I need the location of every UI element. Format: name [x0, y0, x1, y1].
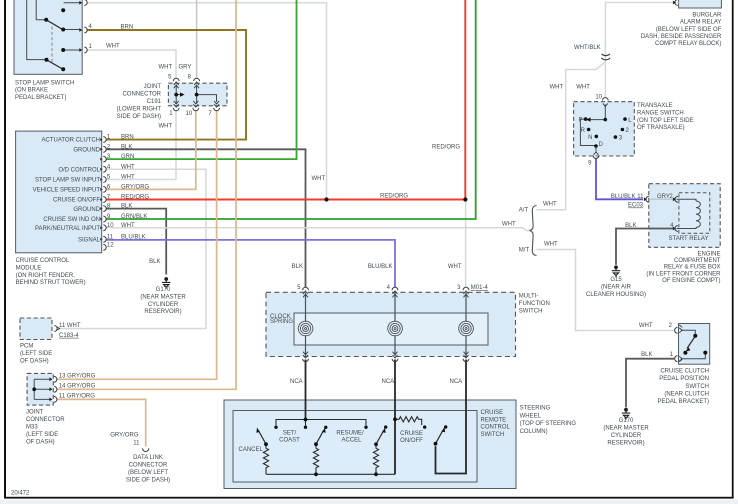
wire NCA BLK clock spring pin 3 to right switch [436, 360, 467, 474]
wire GRY/ORG M33 pin 11 to data link connector [57, 399, 146, 446]
svg-text:START RELAY: START RELAY [669, 236, 709, 242]
svg-text:BLU/BLK: BLU/BLK [368, 264, 393, 270]
svg-text:GRY/ORG: GRY/ORG [110, 433, 139, 439]
wire GRN/BLK module pin 9 to top [106, 0, 476, 219]
C191 pin 7 bottom arc [214, 101, 220, 111]
wire BLK start relay pin 4 to ground G15 [616, 229, 674, 265]
set/coast blade arrowhead [322, 428, 326, 433]
clutch switch pin 2 arc [675, 325, 683, 333]
wire BLK clutch switch pin 1 to ground G170 [626, 359, 674, 408]
PCM pin 11 arc [54, 326, 59, 332]
svg-text:EC03: EC03 [628, 203, 644, 209]
stop lamp switch pin 4 arc [79, 27, 87, 33]
svg-text:BLU/BLK: BLU/BLK [611, 194, 636, 200]
wire NCA BLK clock spring pin 5 to switch rail [305, 360, 307, 420]
svg-text:RED/ORG: RED/ORG [432, 145, 460, 151]
svg-text:WHT: WHT [576, 84, 590, 90]
steering wheel box [224, 400, 516, 489]
wire BRN stop lamp pin 4 to module pin 1 [87, 30, 247, 140]
border frame right [732, 0, 734, 499]
svg-text:M01-4: M01-4 [471, 285, 489, 291]
clock spring spiral coil middle [388, 321, 403, 336]
stop lamp switch internal feed wires [27, 0, 47, 60]
set/coast switch blade [316, 431, 323, 444]
stop lamp switch pin top arc [79, 0, 87, 5]
cancel switch blade [259, 431, 266, 444]
wire GRY/ORG top feed to M33 pin 14 [57, 0, 237, 389]
clock spring pin 5 top arc [303, 287, 309, 297]
border frame bottom [4, 497, 734, 499]
clock spring spiral coil left [298, 321, 313, 336]
transaxle range switch box [574, 102, 635, 156]
wire WHT module pin 10 to brace [106, 228, 530, 231]
switch contact junction dots [264, 417, 447, 476]
svg-text:O/D CONTROL: O/D CONTROL [58, 168, 100, 174]
module pin 8 arc [100, 206, 106, 212]
svg-text:BRN: BRN [121, 135, 134, 141]
resume/accel blade arrowhead [382, 428, 386, 433]
footer gray strip [0, 500, 738, 504]
start relay pin 4 arc [673, 226, 678, 232]
module pin 6 arc [100, 187, 106, 193]
cruise control module box [16, 131, 102, 253]
A/T M/T brace [530, 206, 537, 256]
svg-text:WHT/BLK: WHT/BLK [574, 45, 601, 51]
svg-text:WHT: WHT [543, 202, 557, 208]
engine compartment relay and fuse box [649, 184, 720, 248]
start relay coil top lead [677, 199, 697, 201]
resume/accel resistor [373, 444, 378, 474]
svg-text:PARK/NEUTRAL INPUT: PARK/NEUTRAL INPUT [35, 226, 100, 232]
svg-text:N: N [588, 135, 592, 141]
svg-text:STOP LAMP SW INPUT: STOP LAMP SW INPUT [35, 178, 100, 184]
joint connector C191 box [168, 83, 227, 106]
svg-text:WHT: WHT [550, 84, 564, 90]
wire BLU/BLK transaxle pin 9 to start relay pin 11 [596, 159, 643, 200]
svg-text:GROUND: GROUND [73, 207, 100, 213]
stop lamp switch lower blade [47, 60, 63, 69]
stop lamp switch contact leads [63, 3, 79, 50]
start relay pin 2 arc [673, 196, 678, 202]
svg-text:M/T: M/T [519, 248, 530, 254]
svg-text:GRN: GRN [121, 154, 134, 160]
svg-text:WHT: WHT [121, 223, 135, 229]
svg-text:D: D [599, 142, 604, 148]
set/coast resistor [313, 444, 318, 474]
svg-text:CANCEL: CANCEL [239, 447, 264, 453]
svg-text:SIGNAL: SIGNAL [78, 238, 101, 244]
stop lamp switch upper blade [46, 20, 61, 29]
module pin 4 arc [100, 166, 106, 172]
C191 pin 8 top arc [194, 78, 200, 88]
M33 pin 13 arc [49, 376, 56, 382]
resume/accel switch blade [376, 431, 383, 444]
burglar alarm relay pin arc [673, 0, 678, 5]
start relay coil bottom lead [677, 227, 697, 228]
svg-text:WHT: WHT [312, 176, 326, 182]
cruise remote switch rail [276, 420, 366, 426]
cruise clutch pedal position switch box [679, 324, 710, 365]
svg-text:RED/ORG: RED/ORG [121, 195, 149, 201]
svg-text:NCA: NCA [290, 379, 303, 385]
clock spring inner box [294, 313, 488, 345]
cancel blade arrowhead [256, 428, 260, 433]
joint connector M33 box [27, 373, 53, 405]
module pin 2 arc [100, 146, 106, 152]
transaxle pin 9 arc [593, 152, 599, 159]
wire WHT M/T branch to clutch switch pin 2 [537, 250, 675, 331]
svg-text:WHT: WHT [106, 44, 120, 50]
svg-text:WHT: WHT [544, 242, 558, 248]
svg-text:P: P [578, 117, 582, 123]
module pin 5 arc [100, 177, 106, 183]
clutch switch blade [687, 337, 695, 349]
svg-text:GROUND: GROUND [73, 148, 100, 154]
wire BLU/BLK module pin 11 to clock spring pin 4 [106, 240, 395, 288]
svg-text:10: 10 [186, 111, 193, 117]
switch bottom rail [266, 473, 395, 475]
M33 junction node [32, 387, 36, 391]
clock spring spiral coil right [459, 321, 474, 336]
cruise on/off resistor branch [395, 417, 422, 425]
ground symbol G15 [612, 265, 620, 277]
start relay coil windings [696, 201, 700, 227]
junction dot red corner [463, 197, 467, 201]
M33 pin 11 arc [49, 397, 56, 403]
C191 pin 1 bottom arc [173, 101, 179, 111]
inline connector WHT/BLK arcs [601, 54, 610, 60]
cruise remote control switch box [233, 411, 477, 483]
start relay pin 11 arc [644, 196, 649, 202]
transaxle pin 10 arc [602, 98, 608, 107]
svg-text:WHT: WHT [448, 264, 462, 270]
stop lamp switch pin 1 arc [79, 47, 87, 53]
clock spring pin 4 top arc [392, 287, 398, 297]
wire WHT/BLK burglar alarm relay to transaxle pin 10 [605, 3, 678, 99]
svg-text:20/472: 20/472 [11, 491, 30, 497]
cancel resistor [263, 444, 268, 474]
module pin 9 arc [100, 216, 106, 222]
clock spring pin 5 bottom arc [303, 352, 309, 362]
wire GRY/ORG C191 pin 7 to M33 pin 13 [57, 111, 217, 380]
C191 pin 5 top arc [173, 78, 179, 88]
right switch blade [436, 430, 443, 443]
wire WHT stop lamp pin 1 to C191 pin 5 [87, 50, 177, 79]
svg-text:NCA: NCA [450, 379, 463, 385]
wire WHT module pin 4 to PCM pin 11 [60, 169, 207, 328]
svg-text:CLOCKSPRING: CLOCKSPRING [270, 314, 293, 325]
svg-text:BRN: BRN [121, 25, 134, 31]
ground symbol G170 right [622, 408, 630, 420]
clock spring pin 4 bottom arc [392, 352, 398, 362]
multi-function switch box [266, 292, 516, 356]
clutch switch contact dots [683, 334, 707, 355]
svg-text:BLK: BLK [625, 223, 636, 229]
clutch switch pin 1 internal lead [681, 355, 705, 359]
stop lamp switch mechanical link [51, 27, 53, 65]
module pin 11 arc [100, 236, 106, 242]
junction dot red/wht stop lamp feed [324, 197, 328, 201]
module pin 1 arc [100, 137, 106, 143]
clock spring wire segments [306, 293, 467, 357]
wire WHT stop lamp switch hot feed top [87, 3, 327, 200]
svg-text:RED/ORG: RED/ORG [380, 194, 408, 200]
clutch switch pin 2 internal lead [681, 330, 695, 334]
svg-text:WHT: WHT [159, 123, 173, 129]
border frame left [4, 0, 6, 499]
stop lamp switch box [14, 0, 82, 74]
wire WHT A/T branch to transaxle feed [537, 62, 605, 210]
C191 internal bus wires [176, 85, 216, 104]
transaxle position contact dots P R N D L 2 3 [584, 117, 627, 148]
svg-text:BLK: BLK [121, 204, 132, 210]
start relay box [679, 193, 710, 234]
svg-text:ACTUATOR CLUTCH: ACTUATOR CLUTCH [42, 138, 100, 144]
svg-text:11: 11 [133, 441, 140, 447]
M33 pin 14 arc [49, 386, 56, 392]
transaxle movable contact from pin 10 [590, 105, 605, 120]
wire NCA BLK clock spring pin 4 to cruise on/off branch [394, 360, 396, 475]
svg-text:VEHICLE SPEED INPUT: VEHICLE SPEED INPUT [33, 188, 101, 194]
svg-text:C183-4: C183-4 [59, 333, 79, 339]
module pin 12 arc [103, 244, 106, 250]
module pin 7 arc [100, 197, 106, 203]
svg-text:WHT: WHT [159, 65, 173, 71]
svg-text:BLK: BLK [641, 352, 652, 358]
svg-text:WHT: WHT [121, 164, 135, 170]
svg-text:GRY/ORG: GRY/ORG [121, 184, 150, 190]
svg-text:CRUISE SW IND ON: CRUISE SW IND ON [43, 217, 100, 223]
svg-text:WHT: WHT [502, 222, 516, 228]
svg-text:10: 10 [107, 223, 114, 229]
C191 branch arrowhead [180, 92, 185, 96]
ground symbol G170 left [162, 277, 170, 289]
svg-text:11 WHT: 11 WHT [59, 323, 81, 329]
wire GRY/ORG module pin 6 to C191 pin 10 [106, 111, 196, 190]
svg-text:GRY: GRY [657, 194, 670, 200]
wire GRY top feed to C191 pin 8 [196, 0, 198, 79]
svg-text:12: 12 [107, 242, 114, 248]
M33 internal bus wires [34, 379, 52, 399]
svg-text:A/T: A/T [519, 208, 529, 214]
burglar alarm relay box [679, 0, 722, 8]
svg-text:BLK: BLK [292, 264, 303, 270]
module pin 3 arc [100, 156, 106, 162]
svg-text:11: 11 [107, 234, 114, 240]
svg-text:NCA: NCA [382, 379, 395, 385]
wire RED/ORG module pin 7 to top [106, 0, 465, 200]
svg-text:13 GRY/ORG: 13 GRY/ORG [59, 374, 96, 380]
svg-text:GRN/BLK: GRN/BLK [121, 214, 147, 220]
clock spring pin 3 top arc [463, 287, 469, 297]
svg-text:CRUISEON/OFF: CRUISEON/OFF [400, 431, 423, 444]
module pin 10 arc [100, 225, 106, 231]
svg-text:CRUISE ON/OFF: CRUISE ON/OFF [53, 198, 100, 204]
wire WHT branch red junction down to clock spring pin 3 [465, 200, 467, 288]
PCM box [20, 318, 52, 340]
svg-text:WHT: WHT [639, 323, 653, 329]
svg-text:BLU/BLK: BLU/BLK [121, 234, 146, 240]
clutch switch pin 1 arc [675, 356, 683, 362]
C191 junction node pin5 [174, 93, 178, 97]
transaxle P-to-pin9 internal wire [580, 119, 596, 151]
svg-text:R: R [581, 128, 586, 134]
clock spring pin 3 bottom arc [463, 352, 469, 362]
data link connector pin 11 arc [143, 448, 149, 451]
wire GRN module pin 3 to top [106, 0, 297, 159]
svg-text:BLK: BLK [121, 144, 132, 150]
svg-text:14 GRY/ORG: 14 GRY/ORG [59, 384, 96, 390]
svg-text:GRY: GRY [179, 65, 192, 71]
stop lamp switch contact dots [44, 8, 65, 71]
svg-text:BLK: BLK [149, 259, 160, 265]
right switch blade arrowhead [442, 427, 446, 432]
svg-text:10: 10 [595, 95, 602, 101]
svg-text:11 GRY/ORG: 11 GRY/ORG [59, 394, 95, 400]
wire BLK module pin 8 to ground G170 [106, 209, 166, 275]
wire GRY start relay pin 11 to pin 2 [651, 198, 675, 200]
wire BLK module pin 2 to clock spring pin 5 [106, 149, 306, 287]
C191 branch stub [176, 94, 180, 96]
svg-text:11: 11 [637, 194, 644, 200]
svg-text:WHT: WHT [121, 175, 135, 181]
wire WHT C191 pin 1 to module pin 5 [106, 111, 176, 180]
cruise remote wire1 stub to contact [305, 420, 307, 426]
transaxle contact arrowhead at P [586, 117, 590, 121]
clutch switch blade arrowhead [686, 347, 691, 351]
C191 junction node pin8 [195, 93, 199, 97]
C191 pin 10 bottom arc [193, 101, 199, 111]
